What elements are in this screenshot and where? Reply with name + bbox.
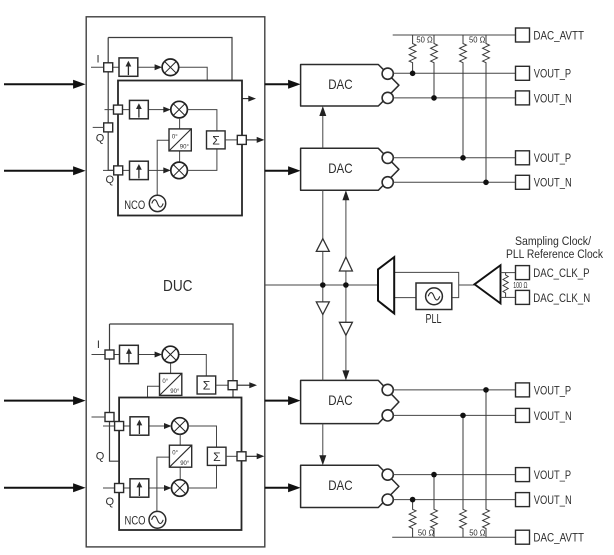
wire sum B-front output [226, 455, 237, 457]
interpolator (upsampler) A-Q2 [130, 161, 149, 179]
svg-text:0°: 0° [172, 134, 178, 140]
wire DUC to DAC3 arrow [265, 400, 290, 402]
svg-text:90°: 90° [180, 145, 190, 151]
pin VOUT_N3 [516, 408, 530, 422]
wire NCO-B to phase splitter B2 [157, 457, 170, 511]
junction R1 to VOUT_P1 [410, 71, 416, 77]
node I (input node square) [104, 63, 113, 72]
svg-text:Σ: Σ [212, 133, 220, 147]
DAC 3 block [301, 380, 399, 423]
DAC1 output bubble N [382, 92, 393, 103]
resistor 50ohm R8 [483, 390, 490, 537]
svg-text:VOUT_N: VOUT_N [534, 493, 572, 507]
node bus left edge DUC-A [108, 38, 114, 171]
wire back-card B output arrow [237, 384, 250, 386]
wire node4 to upsampler3 [123, 169, 130, 171]
wire mixer1 output to hidden sum [179, 67, 208, 80]
junction R3 to VOUT_P2 [460, 155, 466, 161]
wire upsampler2B to mixer2B [149, 425, 165, 427]
wire I input stub [91, 66, 119, 68]
sum block B-front (sigma) [207, 447, 226, 465]
junction R6 to VOUT_P4 [431, 472, 437, 478]
wire input arrow 1 (I data ch A) [4, 83, 75, 85]
wire VOUT_N DAC3 [393, 414, 515, 416]
svg-text:Q: Q [96, 450, 105, 462]
clock buffer triangle B down [339, 322, 352, 335]
PLL block [416, 283, 452, 310]
wire VOUT_N DAC4 [393, 499, 515, 501]
svg-text:VOUT_N: VOUT_N [534, 176, 572, 190]
wire upsampler3 to mixer3 [148, 169, 164, 171]
wire mixer1B to sum1B top [179, 355, 207, 377]
DAC 1 block [301, 65, 399, 107]
wire node3B input stub [92, 416, 106, 418]
resistor 50ohm R2 [431, 35, 438, 98]
svg-text:DAC_CLK_P: DAC_CLK_P [533, 266, 589, 280]
wire DAC_AVTT bottom rail [392, 536, 515, 538]
wire phase splitter B2 to mixer3B [179, 467, 181, 480]
wire upsampler1B to mixer1B [138, 354, 155, 356]
pin VOUT_P4 [516, 468, 530, 482]
DAC 2 block [301, 148, 399, 190]
DUC-A back card (I-path card) top and right edges [108, 38, 232, 81]
wire clock branch A to DAC4 [322, 424, 324, 457]
svg-text:DUC: DUC [163, 278, 193, 295]
wire DUC-A output arrow [246, 139, 257, 141]
wire sum A output [225, 139, 237, 141]
PLL oscillator circle [426, 288, 443, 305]
wire upsampler1 to mixer1 [138, 66, 156, 68]
wire clock branch A mid vertical [322, 190, 324, 380]
wire VOUT_P DAC3 [393, 389, 515, 391]
DAC1 output bubble P [382, 68, 393, 79]
svg-text:Σ: Σ [203, 379, 211, 393]
DAC2 output bubble P [382, 152, 393, 163]
node 5B (back card output node) [228, 381, 237, 390]
mixer B-Q2 [172, 480, 189, 497]
wire mixer2 to phase splitter [179, 118, 181, 129]
svg-text:90°: 90° [170, 389, 180, 395]
resistor 100 ohm termination [503, 273, 508, 298]
junction clock A [320, 282, 326, 288]
node 4 (front card Q input) [114, 166, 123, 175]
svg-text:DAC: DAC [328, 392, 352, 408]
wire clock branch B to DAC2 [345, 199, 347, 285]
wire NCO to phase splitter [157, 140, 169, 195]
DAC3 output bubble P [382, 384, 393, 395]
wire mixer2B to phase splitter B2 [179, 434, 181, 445]
wire clock branch A to DAC1 [322, 115, 324, 149]
wire mixer3B to sum bottom [188, 465, 216, 488]
svg-text:0°: 0° [172, 451, 178, 457]
svg-text:50 Ω: 50 Ω [469, 36, 485, 45]
clock mux trapezoid [378, 257, 394, 313]
junction clock B [343, 282, 349, 288]
wire clock main horizontal [265, 284, 378, 286]
pin DAC_CLK_N [516, 290, 530, 304]
junction R2 to VOUT_N1 [431, 95, 437, 101]
wire DUC to DAC4 arrow [265, 487, 290, 489]
svg-text:VOUT_P: VOUT_P [534, 468, 571, 482]
interpolator (upsampler) B-Q1 [130, 417, 149, 435]
wire DAC_CLK_P [501, 272, 516, 274]
resistor 50ohm R6 [431, 475, 438, 538]
wire mux loop bottom [394, 297, 416, 299]
svg-text:0°: 0° [162, 379, 168, 385]
svg-text:Q: Q [106, 174, 115, 186]
sum block B-back (sigma) [197, 376, 216, 394]
resistor 50ohm R5 [409, 500, 416, 538]
interpolator (upsampler) B-I [120, 345, 139, 363]
DAC 4 block [301, 465, 399, 507]
svg-text:DAC_AVTT: DAC_AVTT [533, 28, 584, 42]
node 3B (back card Q input) [105, 413, 114, 422]
interpolator (upsampler) A-I [119, 58, 138, 76]
mixer A-Q1 [171, 101, 188, 118]
pin DAC_AVTT bottom [516, 530, 530, 544]
DAC4 output bubble N [382, 494, 393, 505]
pin VOUT_P3 [516, 383, 530, 397]
mixer B-I [162, 346, 179, 363]
wire upsampler2 to mixer2 [148, 109, 164, 111]
phase splitter 0/90 block B-back [160, 373, 182, 395]
wire node3 input stub [93, 126, 104, 128]
svg-text:Q: Q [96, 133, 105, 145]
wire mixer2 to sum top [187, 110, 217, 131]
pin DAC_CLK_P [516, 266, 530, 280]
clock input buffer triangle [475, 265, 501, 303]
svg-text:90°: 90° [180, 461, 190, 467]
svg-text:Σ: Σ [213, 450, 221, 464]
clock buffer triangle A up [316, 239, 329, 252]
wire DUC to DAC1 arrow [265, 83, 290, 85]
DUC-B front card [119, 398, 241, 531]
pin VOUT_N4 [516, 493, 530, 507]
interpolator (upsampler) A-Q1 [130, 100, 149, 118]
svg-text:50 Ω: 50 Ω [469, 528, 485, 537]
DAC4 output bubble P [382, 469, 393, 480]
wire back-card output arrow [242, 98, 249, 100]
mixer B-Q1 [172, 418, 189, 435]
svg-text:VOUT_N: VOUT_N [534, 409, 572, 423]
svg-text:DAC: DAC [328, 160, 352, 176]
svg-text:100 Ω: 100 Ω [513, 281, 527, 290]
DUC block box [86, 17, 265, 547]
wire upsampler3B to mixer3B [149, 487, 165, 489]
wire clock branch B to DAC3 [345, 285, 347, 372]
wire VOUT_P DAC4 [393, 474, 515, 476]
wire VOUT_P DAC2 [393, 157, 515, 159]
svg-text:Sampling Clock/: Sampling Clock/ [515, 234, 591, 248]
wire VOUT_N DAC2 [393, 181, 515, 183]
svg-text:NCO: NCO [125, 514, 146, 528]
NCO oscillator B [149, 511, 166, 528]
wire mixer2B to sum top [188, 426, 216, 447]
phase splitter 0/90 block B-front [169, 445, 191, 467]
wire sum B-back output [216, 384, 228, 386]
svg-text:PLL: PLL [426, 312, 442, 326]
resistor 50ohm R7 [460, 415, 467, 537]
mixer A-Q2 [171, 162, 188, 179]
interpolator (upsampler) B-Q2 [130, 479, 149, 497]
wire NCO feed of back card (hidden below front card) [148, 386, 160, 397]
node 2 (front card upper input) [114, 105, 123, 114]
svg-text:VOUT_P: VOUT_P [534, 67, 571, 81]
node 3 (back card Q input) [104, 123, 113, 132]
svg-text:VOUT_P: VOUT_P [534, 383, 571, 397]
wire node2B input stub [103, 425, 130, 427]
pin VOUT_P1 [516, 66, 530, 80]
svg-text:50 Ω: 50 Ω [416, 36, 432, 45]
svg-text:DAC: DAC [328, 477, 352, 493]
svg-text:I: I [97, 339, 100, 351]
svg-text:VOUT_N: VOUT_N [534, 91, 572, 105]
junction R7 to VOUT_N3 [460, 413, 466, 419]
wire input arrow 4 (Q data ch B) [4, 487, 75, 489]
svg-text:DAC: DAC [328, 76, 352, 92]
svg-text:I: I [97, 53, 100, 65]
NCO oscillator A [149, 195, 165, 211]
resistor 50ohm R3 [460, 35, 467, 158]
svg-text:PLL Reference Clock: PLL Reference Clock [506, 247, 604, 261]
clock buffer triangle B up [339, 257, 352, 271]
wire DUC-B output arrow [246, 455, 257, 457]
node 5B2 (DUC-B output node) [237, 452, 246, 461]
wire VOUT_N DAC1 [393, 97, 515, 99]
wire I input stub B [92, 354, 120, 356]
svg-text:50 Ω: 50 Ω [418, 528, 434, 537]
wire mixer1B to phase splitter B1 [170, 363, 172, 374]
wire input arrow 2 (Q data ch A) [4, 170, 75, 172]
wire node4B input stub [103, 487, 130, 489]
svg-text:VOUT_P: VOUT_P [534, 151, 571, 165]
junction R5 to VOUT_N4 [410, 497, 416, 503]
pin VOUT_N1 [516, 91, 530, 105]
sum block A (sigma) [207, 131, 226, 149]
DAC2 output bubble N [382, 177, 393, 188]
wire node2 input stub [105, 109, 130, 111]
wire VOUT_P DAC1 [393, 72, 515, 74]
wire clock buffer to loop [459, 284, 475, 286]
svg-text:DAC_CLK_N: DAC_CLK_N [533, 291, 590, 305]
mixer A-I (multiplier) [162, 59, 179, 76]
svg-text:DAC_AVTT: DAC_AVTT [533, 531, 584, 545]
wire mixer3 to sum bottom [187, 149, 217, 171]
wire input arrow 3 (I data ch B) [4, 400, 75, 402]
svg-text:NCO: NCO [124, 198, 145, 212]
wire DAC_CLK_N [501, 296, 516, 298]
wire node4 input stub [103, 169, 114, 171]
wire phase splitter to mixer3 [179, 151, 181, 162]
svg-text:Q: Q [106, 496, 115, 508]
node I-B (input node square) [105, 350, 114, 359]
clock buffer triangle A down [316, 302, 329, 315]
wire mux loop top [394, 272, 459, 297]
DAC3 output bubble N [382, 410, 393, 421]
phase splitter 0/90 block A [169, 129, 191, 151]
resistor 50ohm R1 [409, 35, 416, 73]
node 5 (DUC-A output node) [237, 135, 246, 144]
wire DUC to DAC2 arrow [265, 170, 290, 172]
junction R8 to VOUT_P3 [483, 387, 489, 393]
junction R4 to VOUT_N2 [483, 180, 489, 186]
wire DAC_AVTT top rail [393, 34, 516, 36]
resistor 50ohm R4 [483, 35, 490, 182]
DUC-A front card (Q-path card) [118, 81, 242, 216]
node 2B (front card upper input) [115, 422, 124, 431]
node bus left edge DUC-B [110, 324, 120, 461]
pin VOUT_P2 [516, 151, 530, 165]
pin VOUT_N2 [516, 175, 530, 189]
pin DAC_AVTT top [516, 28, 530, 42]
node 4B (front card Q input) [115, 484, 124, 493]
DUC-B back card top and right edges [110, 324, 234, 398]
